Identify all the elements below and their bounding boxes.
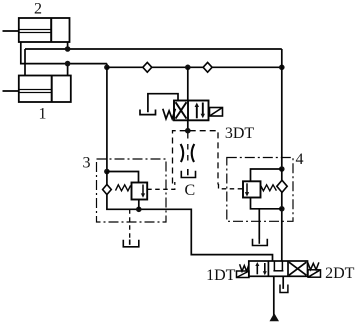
valve 3 enclosure (chain line) bbox=[97, 159, 167, 222]
node cyl2 rod junction bbox=[65, 46, 71, 52]
directional valve body bbox=[249, 261, 308, 276]
node valve4 inlet bbox=[279, 166, 285, 172]
wire 3DT to C bbox=[187, 120, 189, 130]
C throttle arcs bbox=[181, 144, 184, 162]
right position crossed bbox=[289, 262, 306, 275]
wire valve4 outlet bbox=[281, 192, 283, 261]
wire valve3 supply drop bbox=[106, 67, 108, 171]
node 3DT branch bbox=[185, 65, 191, 71]
left position arrows bbox=[257, 263, 265, 274]
3DT drain elbow bbox=[148, 94, 178, 113]
node valve3 branch bbox=[104, 65, 110, 71]
valve3 relief arrow bbox=[142, 185, 144, 196]
node cyl1 rod junction bbox=[65, 61, 71, 67]
svg-text:1DT: 1DT bbox=[206, 267, 236, 284]
wire lower line bbox=[107, 66, 282, 68]
valve3 check diamond bbox=[103, 185, 112, 195]
valve 3DT body bbox=[174, 101, 209, 121]
valve4 pilot line (dashed) bbox=[219, 184, 244, 189]
svg-text:C: C bbox=[184, 182, 195, 199]
node C inlet bbox=[185, 128, 191, 134]
valve4 relief arrow bbox=[246, 183, 248, 194]
node valve4 outlet junction bbox=[279, 206, 285, 212]
valve3 relief square bbox=[132, 183, 148, 200]
wire valve4 inlet to diamond bbox=[281, 169, 283, 180]
3DT flow arrows heads bbox=[195, 103, 199, 108]
valve 4 enclosure (chain line) bbox=[227, 158, 293, 222]
svg-text:2DT: 2DT bbox=[325, 265, 355, 282]
svg-text:3: 3 bbox=[83, 155, 91, 172]
C center flow line (dashed) bbox=[187, 133, 189, 166]
3DT solenoid bbox=[210, 108, 223, 117]
wire relief4 bottom bbox=[251, 198, 282, 209]
valve3 drain (dashed) bbox=[129, 209, 131, 238]
valve4 drain bbox=[258, 209, 260, 239]
svg-text:4: 4 bbox=[296, 151, 304, 168]
node right line junction bbox=[279, 65, 285, 71]
pressure source triangle bbox=[270, 313, 280, 321]
valve4 spring bbox=[261, 185, 277, 191]
check valve diamond on line (right) bbox=[203, 62, 212, 72]
wire valve4 inlet to relief bbox=[251, 169, 282, 181]
wire valve3 inlet to diamond bbox=[106, 172, 108, 185]
wire jog at valve3 branch bbox=[106, 64, 108, 68]
svg-text:3DT: 3DT bbox=[225, 125, 255, 142]
wire cyl1 cap riser bbox=[24, 49, 26, 76]
wire pump supply bbox=[273, 276, 275, 315]
3DT drain tank bbox=[140, 110, 156, 115]
svg-text:1: 1 bbox=[39, 106, 47, 123]
wire tank port bbox=[282, 276, 284, 289]
cylinder 1 bbox=[3, 76, 71, 103]
tank at T port bbox=[280, 285, 288, 293]
flow control C enclosure (dashed) bbox=[173, 131, 219, 185]
solenoid 1DT bbox=[237, 271, 250, 278]
wire cyl2 rod port down bbox=[67, 42, 69, 49]
wire cyl2 cap port down-left bbox=[21, 42, 107, 64]
solenoid 2DT bbox=[308, 270, 321, 277]
node valve3 inlet bbox=[104, 169, 110, 175]
valve4 check diamond bbox=[277, 180, 287, 192]
wire relief3 bottom bbox=[138, 200, 140, 210]
center position blocked bbox=[273, 261, 283, 271]
wire valve3 outlet bbox=[107, 195, 273, 262]
valve4 relief square bbox=[243, 181, 261, 197]
wire cyl1 rod riser bbox=[67, 64, 69, 76]
valve3 pilot line (dashed) bbox=[147, 182, 175, 189]
check valve diamond on line (left) bbox=[143, 62, 152, 72]
right spring bbox=[308, 262, 319, 269]
wire upper line bbox=[25, 48, 282, 50]
3DT spring bbox=[163, 109, 176, 119]
valve3 spring bbox=[116, 185, 131, 191]
wire 3DT supply drop bbox=[187, 67, 189, 100]
left spring bbox=[240, 264, 249, 271]
node valve3 outlet junction bbox=[136, 207, 142, 213]
valve3 drain tank bbox=[123, 240, 139, 247]
valve4 drain tank bbox=[253, 239, 268, 246]
C tank bbox=[181, 169, 195, 178]
wire valve3 inlet to relief bbox=[107, 172, 139, 183]
wire valve4 supply drop bbox=[281, 49, 283, 169]
cylinder 2 bbox=[3, 18, 70, 42]
svg-text:2: 2 bbox=[34, 1, 42, 18]
